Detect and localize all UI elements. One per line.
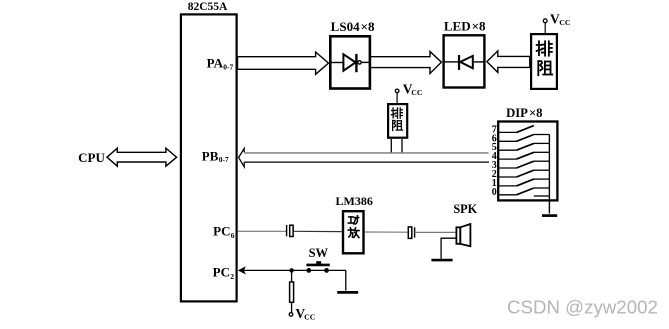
switch row 7 <box>498 131 516 133</box>
svg-text:LM386: LM386 <box>336 194 373 208</box>
switch row 4 <box>498 158 516 160</box>
resistor R1 <box>290 270 294 313</box>
svg-text:CSDN @zyw2002: CSDN @zyw2002 <box>507 297 658 318</box>
wire PC6 to C1 <box>238 230 286 232</box>
ground (below DIP) <box>542 214 557 217</box>
power Vcc (middle) <box>395 82 423 105</box>
bus arrow CPU to 82C55A (double headed) <box>107 148 177 166</box>
wire RN2 right leg to PB bus <box>401 139 403 153</box>
ground (below SW) <box>337 291 358 294</box>
svg-text:SW: SW <box>309 246 329 260</box>
svg-text:CC: CC <box>559 18 571 27</box>
block DIP switch S1 <box>498 122 557 201</box>
wire PB bus bottom line <box>244 161 489 163</box>
amplifier block LM386 (功放) <box>343 211 364 253</box>
speaker SPK <box>456 224 470 246</box>
capacitor C2 <box>408 227 414 239</box>
wire speaker to ground <box>441 238 456 259</box>
wire SW to ground <box>345 270 347 290</box>
ground (below speaker) <box>431 259 452 262</box>
wire RN2 left leg to PB bus <box>390 139 392 153</box>
wire C2 to speaker <box>415 231 457 233</box>
svg-text:DIP×8: DIP×8 <box>506 106 542 120</box>
switch row 2 <box>498 176 516 178</box>
svg-text:LS04×8: LS04×8 <box>331 19 375 34</box>
svg-text:0-7: 0-7 <box>219 155 229 164</box>
svg-text:CPU: CPU <box>78 150 105 165</box>
diode symbol D1 <box>445 55 486 70</box>
wire LM386 to C2 <box>365 231 408 233</box>
switch row 3 <box>498 167 516 169</box>
gate block LS04 <box>330 36 370 88</box>
svg-text:0-7: 0-7 <box>223 62 233 71</box>
wire C1 to LM386 <box>294 230 342 232</box>
bus arrow resistor-network to LED <box>487 51 530 73</box>
port label PC2 <box>213 265 235 281</box>
chip 82C55A <box>181 14 237 301</box>
capacitor C1 <box>287 225 294 237</box>
port label PA0-7 <box>207 56 234 72</box>
power Vcc (bottom) <box>289 306 316 322</box>
block LED <box>444 35 485 87</box>
svg-text:6: 6 <box>231 231 235 240</box>
port label PB0-7 <box>202 149 229 164</box>
svg-text:PC: PC <box>213 265 230 280</box>
switch SW (push button) <box>306 261 329 273</box>
switch row 1 <box>498 185 516 187</box>
switch row 0 <box>498 194 516 196</box>
wire DIP common bus <box>548 135 550 214</box>
resistor network RN1 (排阻 right) <box>531 34 557 89</box>
switch row 6 <box>498 140 516 142</box>
wire PB bus top line <box>244 152 488 154</box>
arrowhead into PC2 <box>239 267 245 273</box>
svg-text:PA: PA <box>207 56 224 71</box>
node junction (resistor tap) <box>289 268 293 272</box>
resistor network RN2 (排阻 middle) <box>388 104 407 138</box>
wire PC2 line <box>242 269 346 271</box>
svg-text:0: 0 <box>492 187 497 198</box>
svg-text:LED×8: LED×8 <box>444 19 486 34</box>
svg-text:PC: PC <box>213 224 230 239</box>
switch row 5 <box>498 149 516 151</box>
bus arrow LS04 to LED <box>371 52 442 74</box>
power Vcc (top right) <box>543 11 571 34</box>
svg-text:82C55A: 82C55A <box>188 1 228 13</box>
inverter symbol U1 <box>332 54 370 72</box>
port label PC6 <box>213 224 235 240</box>
bus arrow PA to LS04 <box>238 52 329 74</box>
svg-text:2: 2 <box>230 272 234 281</box>
DIP row labels 7..0 <box>492 124 497 197</box>
DIP switch rows <box>498 126 549 196</box>
svg-text:PB: PB <box>202 149 219 164</box>
svg-text:CC: CC <box>304 313 316 322</box>
svg-text:SPK: SPK <box>453 202 477 216</box>
wire row 0 contact <box>534 195 550 197</box>
svg-text:CC: CC <box>411 88 423 97</box>
bus arrow PB (arrowhead at chip) <box>239 149 245 167</box>
